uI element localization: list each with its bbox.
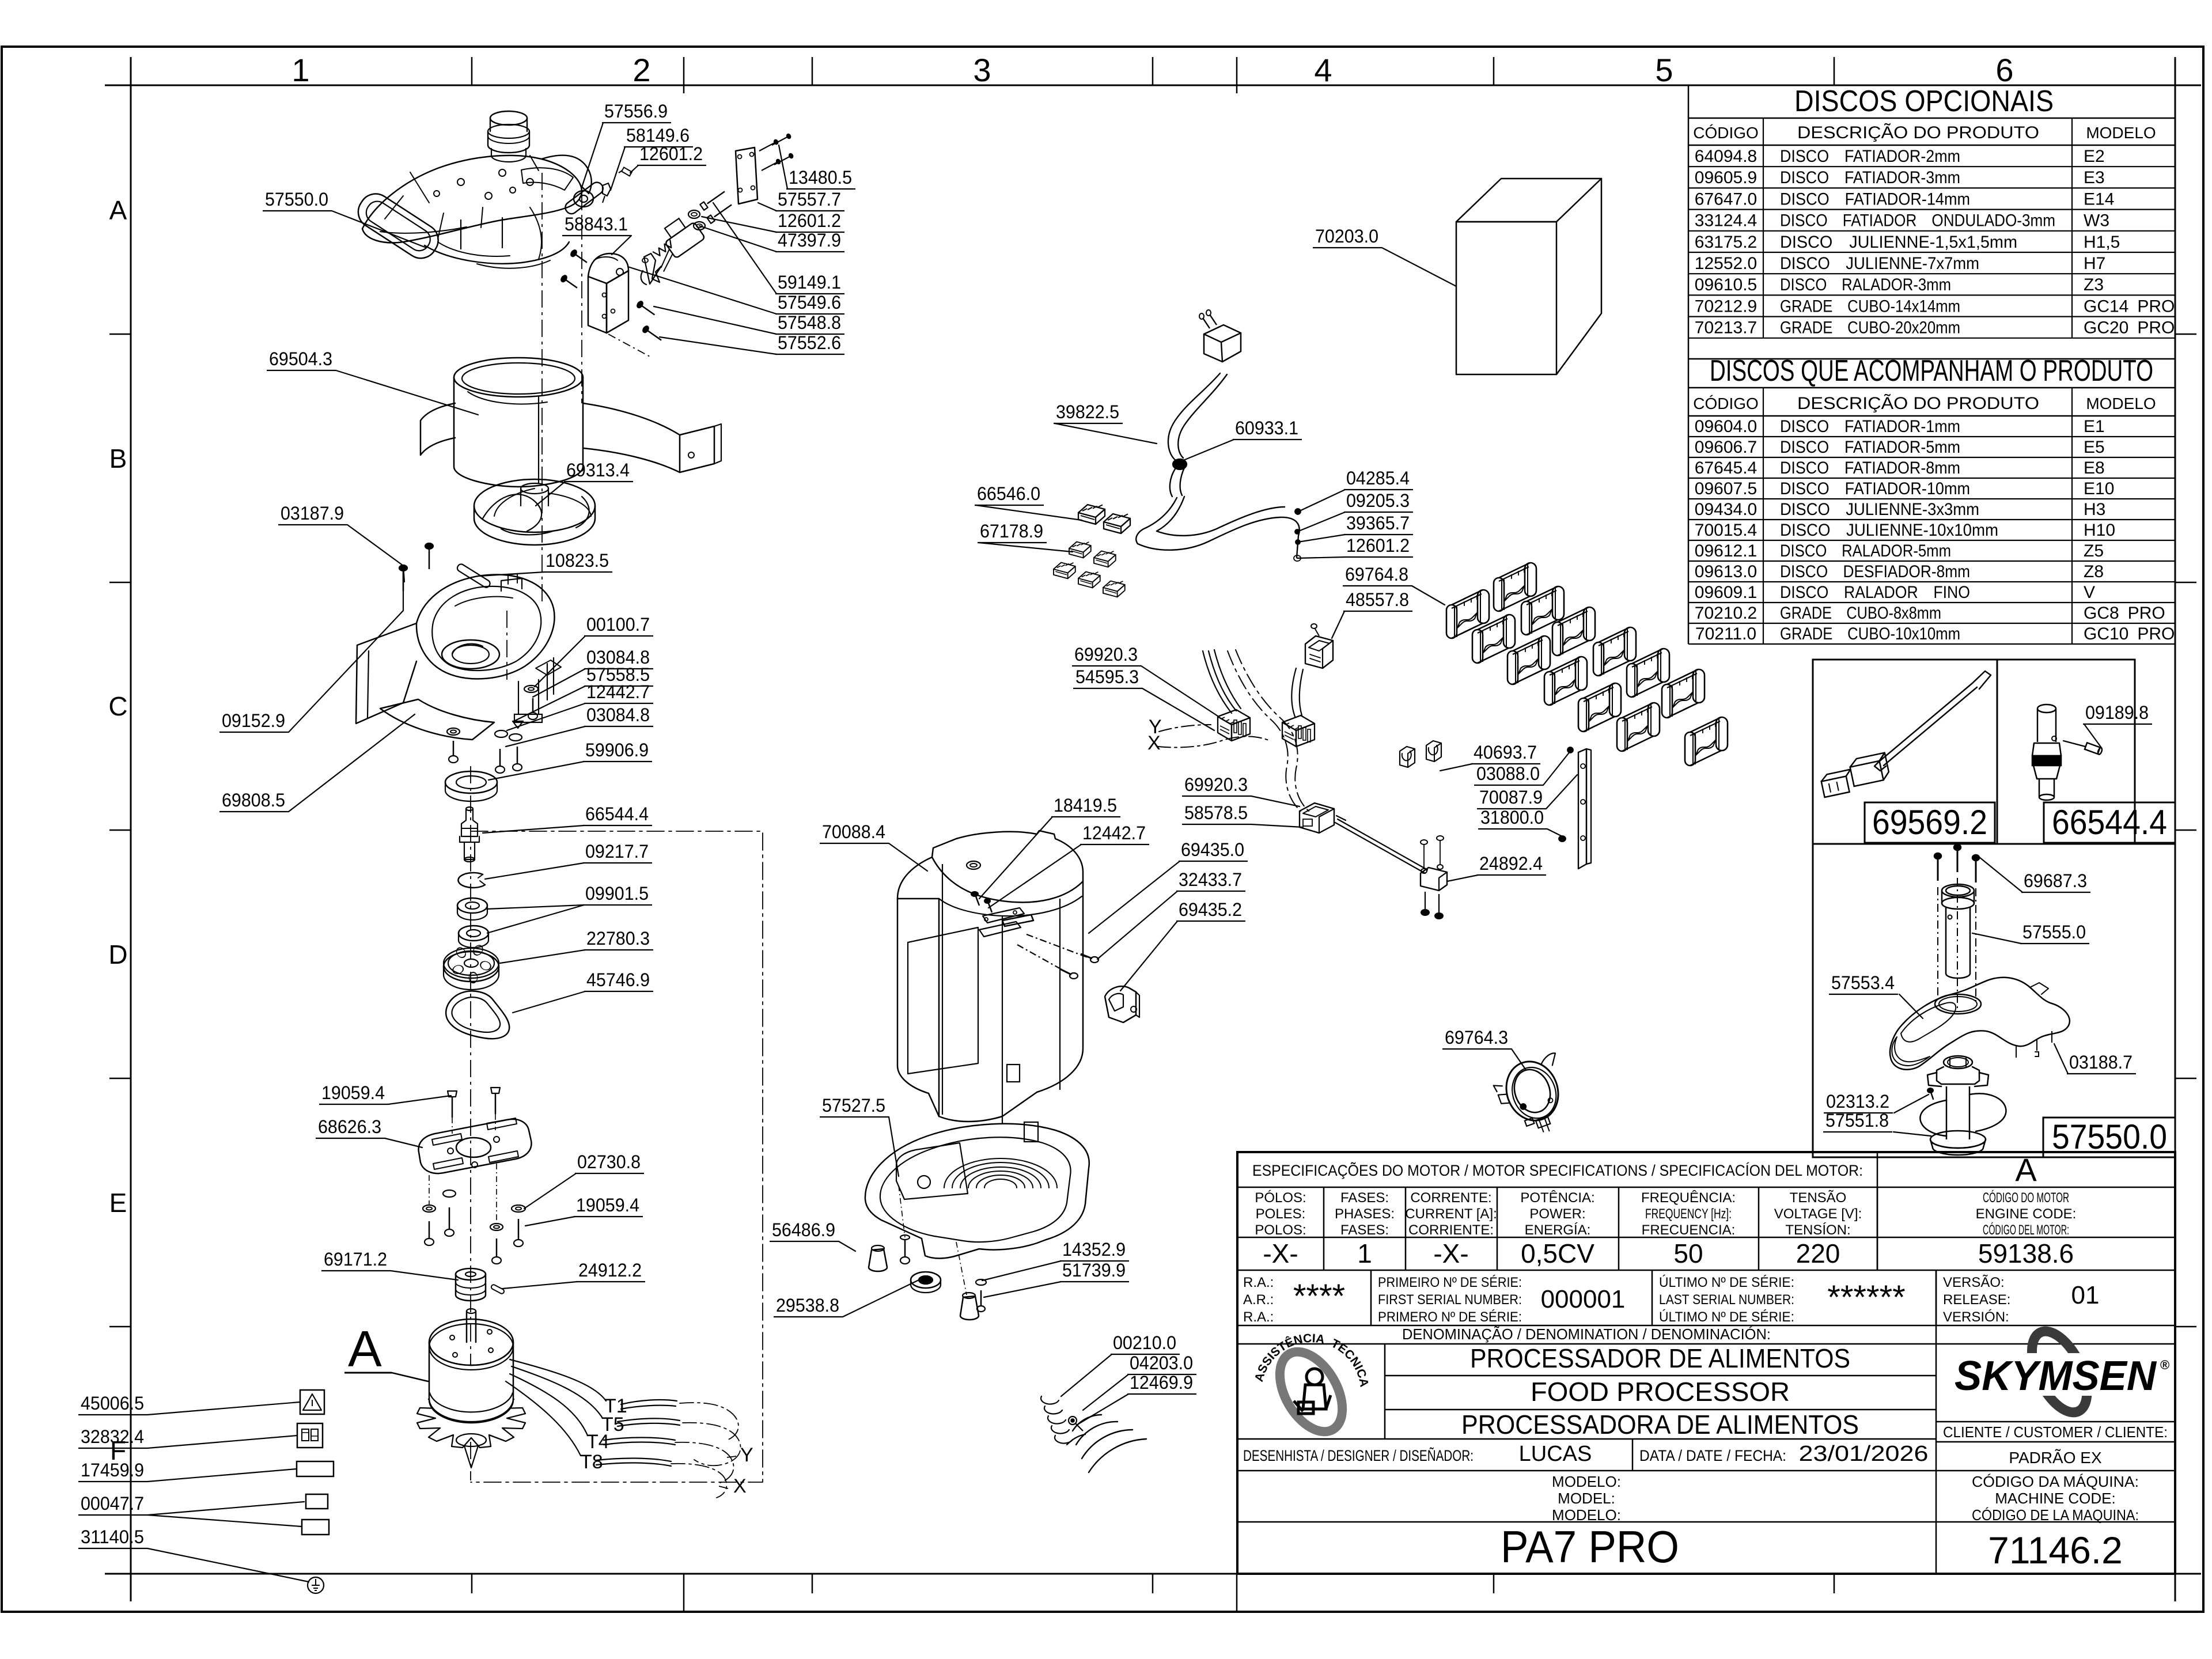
svg-text:66546.0: 66546.0 [977, 483, 1040, 504]
svg-text:DISCO FATIADOR-2mm: DISCO FATIADOR-2mm [1780, 147, 1960, 166]
svg-text:69569.2: 69569.2 [1872, 803, 1987, 842]
svg-text:09189.8: 09189.8 [2085, 702, 2149, 723]
svg-text:DISCO FATIADOR-1mm: DISCO FATIADOR-1mm [1780, 417, 1960, 436]
svg-text:45006.5: 45006.5 [81, 1393, 144, 1414]
main centerline [541, 173, 543, 605]
svg-text:6: 6 [1995, 52, 2013, 88]
svg-text:69920.3: 69920.3 [1184, 774, 1248, 795]
svg-text:24912.2: 24912.2 [578, 1260, 642, 1281]
detail: cleaning tool 69569.2 [1879, 683, 1972, 762]
svg-text:0,5CV: 0,5CV [1521, 1238, 1594, 1268]
svg-text:23/01/2026: 23/01/2026 [1799, 1442, 1929, 1466]
svg-text:DISCO FATIADOR-5mm: DISCO FATIADOR-5mm [1780, 438, 1960, 457]
svg-text:09217.7: 09217.7 [585, 841, 649, 862]
housing top screws & bracket 18419.5 [976, 896, 979, 906]
ring 59906.9 [445, 771, 497, 793]
svg-text:18419.5: 18419.5 [1054, 795, 1117, 816]
svg-text:09609.1: 09609.1 [1695, 583, 1757, 602]
pulley 22780.3 [444, 952, 499, 982]
switch 48557.8 [1305, 636, 1333, 668]
housing left recess [908, 927, 978, 1074]
svg-text:22780.3: 22780.3 [586, 928, 650, 949]
svg-text:50: 50 [1673, 1238, 1703, 1268]
svg-text:09605.9: 09605.9 [1695, 168, 1757, 187]
feed cylinder 69504.3 [454, 358, 583, 397]
bowl legs [518, 680, 539, 714]
pin 24912.2 [491, 1284, 505, 1294]
svg-text:19059.4: 19059.4 [321, 1082, 385, 1103]
svg-text:70211.0: 70211.0 [1695, 624, 1756, 643]
svg-text:MODELO: MODELO [2086, 124, 2156, 142]
lid dash leader [581, 193, 582, 403]
skymsen logo cell [1936, 1421, 2175, 1423]
svg-text:DISCO FATIADOR-10mm: DISCO FATIADOR-10mm [1780, 479, 1970, 498]
svg-text:4: 4 [1314, 52, 1332, 88]
svg-text:39365.7: 39365.7 [1346, 513, 1410, 533]
svg-text:70203.0: 70203.0 [1315, 226, 1378, 247]
svg-text:MODELO: MODELO [2086, 395, 2156, 412]
plate 68626.3 [419, 1119, 532, 1173]
pin 57556.9 [563, 180, 605, 217]
svg-text:ÚLTIMO Nº DE SÉRIE:: ÚLTIMO Nº DE SÉRIE: [1659, 1275, 1794, 1290]
svg-text:MODELO:: MODELO: [1552, 1473, 1621, 1490]
svg-text:04285.4: 04285.4 [1346, 468, 1410, 488]
svg-text:59906.9: 59906.9 [585, 740, 649, 760]
detail 57550.0: tube 57555.0 [1942, 884, 1974, 897]
svg-text:09607.5: 09607.5 [1695, 479, 1757, 498]
svg-text:57556.9: 57556.9 [604, 101, 668, 122]
base feet and screws [869, 1249, 887, 1271]
svg-text:70015.4: 70015.4 [1695, 521, 1757, 540]
detail 57550.0: cover arm 57553.4 [1890, 978, 2070, 1070]
svg-text:01: 01 [2071, 1281, 2100, 1309]
svg-text:1: 1 [1357, 1238, 1372, 1268]
svg-text:FOOD PROCESSOR: FOOD PROCESSOR [1531, 1377, 1790, 1407]
shaft 66544.4 [466, 807, 473, 810]
svg-text:B: B [109, 444, 127, 474]
svg-text:57548.8: 57548.8 [778, 312, 841, 333]
discs array 69764.8 [1494, 563, 1536, 611]
svg-text:-X-: -X- [1433, 1238, 1468, 1268]
hinge fork [644, 253, 661, 284]
svg-text:D: D [108, 940, 127, 969]
lid body plate [362, 156, 582, 243]
svg-text:Z3: Z3 [2084, 275, 2104, 294]
svg-text:FREQUENCY [Hz]:: FREQUENCY [Hz]: [1645, 1206, 1732, 1222]
svg-text:68626.3: 68626.3 [318, 1116, 381, 1137]
svg-text:DISCO JULIENNE-1,5x1,5mm: DISCO JULIENNE-1,5x1,5mm [1780, 233, 2017, 252]
svg-text:57555.0: 57555.0 [2022, 922, 2086, 942]
box 70203.0 [1456, 222, 1556, 374]
connector blocks 66546.0 [1078, 505, 1105, 524]
clamp block [1421, 868, 1447, 891]
svg-text:A: A [348, 1320, 382, 1377]
svg-text:57549.6: 57549.6 [778, 292, 841, 313]
fold marks bottom [683, 1574, 685, 1612]
svg-text:GC14 PRO: GC14 PRO [2084, 297, 2175, 316]
bar 70087.9 [1578, 749, 1586, 869]
denomination cells [1384, 1344, 1386, 1439]
svg-text:E14: E14 [2084, 190, 2114, 209]
svg-text:DISCO RALADOR-5mm: DISCO RALADOR-5mm [1780, 541, 1951, 560]
bowl spout left [356, 623, 416, 724]
svg-text:31800.0: 31800.0 [1480, 807, 1544, 828]
svg-text:70213.7: 70213.7 [1695, 319, 1757, 338]
housing tab [967, 861, 980, 869]
svg-text:DISCO FATIADOR-8mm: DISCO FATIADOR-8mm [1780, 459, 1960, 478]
svg-text:ENGINE CODE:: ENGINE CODE: [1976, 1206, 2077, 1222]
lid assembly 57550.0: pusher cap [490, 111, 527, 125]
svg-text:67645.4: 67645.4 [1695, 459, 1757, 478]
svg-text:FASES:: FASES: [1340, 1190, 1389, 1206]
svg-text:57557.7: 57557.7 [778, 189, 841, 210]
border corner crossing ticks [105, 85, 131, 86]
svg-text:E8: E8 [2084, 459, 2105, 478]
springs 00210.0/04203.0/12469.9 [1041, 1396, 1059, 1404]
svg-text:FREQUÊNCIA:: FREQUÊNCIA: [1641, 1190, 1736, 1206]
impeller 69313.4 [521, 483, 548, 494]
title block [1237, 1152, 2175, 1574]
svg-text:12442.7: 12442.7 [586, 681, 650, 702]
column zone ticks bottom [471, 1574, 473, 1593]
svg-text:ENERGÍA:: ENERGÍA: [1525, 1222, 1591, 1238]
rod 24892.4 [1335, 823, 1425, 873]
safety icon 45006.5 [300, 1390, 324, 1414]
svg-text:POTÊNCIA:: POTÊNCIA: [1520, 1190, 1594, 1206]
svg-text:PROCESSADORA DE ALIMENTOS: PROCESSADORA DE ALIMENTOS [1461, 1410, 1859, 1440]
svg-text:VERSÃO:: VERSÃO: [1943, 1275, 2005, 1290]
svg-text:58578.5: 58578.5 [1184, 802, 1248, 823]
table DISCOS OPCIONAIS [1688, 85, 1690, 644]
svg-text:SKYMSEN: SKYMSEN [1955, 1353, 2157, 1399]
designer row [1632, 1439, 1634, 1471]
svg-text:RELEASE:: RELEASE: [1943, 1292, 2010, 1308]
svg-text:MACHINE CODE:: MACHINE CODE: [1995, 1490, 2115, 1507]
plate screws 13480.5 [758, 139, 779, 153]
table DISCOS QUE ACOMPANHAM O PRODUTO [1688, 387, 2175, 389]
svg-text:GC20 PRO: GC20 PRO [2084, 319, 2175, 338]
svg-text:DISCO DESFIADOR-8mm: DISCO DESFIADOR-8mm [1780, 562, 1970, 581]
svg-text:03187.9: 03187.9 [281, 503, 344, 524]
row zone ticks right [2175, 334, 2196, 335]
svg-text:®: ® [2160, 1358, 2169, 1372]
detail: pin sensor 66544.4 [2037, 704, 2056, 713]
svg-text:H10: H10 [2084, 521, 2115, 540]
svg-text:DISCO FATIADOR-3mm: DISCO FATIADOR-3mm [1780, 168, 1960, 187]
svg-text:ÚLTIMO Nº DE SÉRIE:: ÚLTIMO Nº DE SÉRIE: [1659, 1309, 1794, 1325]
svg-text:00100.7: 00100.7 [586, 614, 650, 635]
svg-text:PRIMEIRO Nº DE SÉRIE:: PRIMEIRO Nº DE SÉRIE: [1378, 1275, 1522, 1290]
fold marks top [683, 57, 685, 93]
svg-text:Z5: Z5 [2084, 541, 2104, 560]
svg-text:63175.2: 63175.2 [1695, 233, 1757, 252]
svg-text:LAST SERIAL NUMBER:: LAST SERIAL NUMBER: [1659, 1292, 1794, 1308]
svg-text:H7: H7 [2084, 254, 2105, 273]
svg-text:DATA / DATE / FECHA:: DATA / DATE / FECHA: [1639, 1447, 1786, 1464]
svg-text:69435.2: 69435.2 [1179, 899, 1242, 920]
title block verticals [1877, 1152, 1878, 1270]
svg-text:PA7 PRO: PA7 PRO [1501, 1521, 1679, 1572]
svg-text:17459.9: 17459.9 [81, 1460, 144, 1480]
svg-text:E5: E5 [2084, 438, 2105, 457]
svg-text:48557.8: 48557.8 [1346, 589, 1409, 610]
pin 09189.8 [2063, 741, 2085, 747]
svg-text:******: ****** [1827, 1279, 1905, 1316]
svg-text:CÓDIGO DE LA MAQUINA:: CÓDIGO DE LA MAQUINA: [1972, 1506, 2139, 1524]
svg-text:12601.2: 12601.2 [1346, 535, 1410, 556]
svg-text:****: **** [1293, 1278, 1345, 1315]
svg-text:H1,5: H1,5 [2084, 233, 2120, 252]
svg-text:FIRST SERIAL NUMBER:: FIRST SERIAL NUMBER: [1378, 1292, 1522, 1308]
svg-text:29538.8: 29538.8 [776, 1295, 839, 1316]
connector blocks 67178.9 [1069, 542, 1091, 558]
svg-text:T8: T8 [580, 1451, 603, 1473]
latch block 58843.1 [588, 276, 607, 333]
mount arcs 04203.0 [1073, 1415, 1101, 1431]
svg-text:57553.4: 57553.4 [1831, 972, 1895, 993]
motor fan (behind body) [417, 1389, 525, 1448]
svg-text:Y: Y [740, 1444, 753, 1466]
svg-text:GRADE CUBO-10x10mm: GRADE CUBO-10x10mm [1780, 624, 1960, 643]
svg-text:2: 2 [632, 52, 650, 88]
svg-text:00210.0: 00210.0 [1113, 1332, 1176, 1353]
motor wires [510, 1359, 606, 1401]
screws 03187.9 [403, 570, 404, 591]
svg-text:33124.4: 33124.4 [1695, 211, 1757, 230]
svg-text:ESPECIFICAÇÕES DO MOTOR / MOTO: ESPECIFICAÇÕES DO MOTOR / MOTOR SPECIFIC… [1252, 1161, 1863, 1179]
svg-text:DISCO RALADOR-3mm: DISCO RALADOR-3mm [1780, 275, 1951, 294]
svg-text:57552.6: 57552.6 [778, 332, 841, 353]
svg-text:57550.0: 57550.0 [2052, 1118, 2167, 1156]
detail box frames [1813, 660, 2135, 844]
svg-text:13480.5: 13480.5 [789, 167, 852, 188]
base 57527.5 [865, 1124, 1089, 1259]
svg-text:09434.0: 09434.0 [1695, 500, 1757, 519]
svg-text:58843.1: 58843.1 [565, 214, 628, 234]
svg-text:-X-: -X- [1263, 1238, 1298, 1268]
svg-text:VOLTAGE [V]:: VOLTAGE [V]: [1774, 1206, 1862, 1222]
svg-text:03084.8: 03084.8 [586, 704, 650, 725]
svg-text:X: X [733, 1475, 747, 1497]
switch cap 69435.2 [1105, 986, 1136, 1022]
latch screws [570, 249, 589, 265]
svg-text:220: 220 [1796, 1238, 1840, 1268]
svg-text:R.A.:: R.A.: [1243, 1275, 1274, 1290]
svg-text:69808.5: 69808.5 [222, 790, 285, 810]
svg-text:POWER:: POWER: [1529, 1206, 1585, 1222]
lid handle ring [352, 188, 444, 264]
svg-text:09606.7: 09606.7 [1695, 438, 1757, 457]
svg-text:10823.5: 10823.5 [546, 550, 609, 571]
clip 58149.6 [603, 183, 611, 196]
safety icon 32832.4 [297, 1423, 323, 1448]
svg-text:09901.5: 09901.5 [585, 883, 649, 904]
svg-text:69764.8: 69764.8 [1345, 564, 1408, 585]
detail 57550.0: screws 69687.3 [1937, 858, 1939, 881]
base left recess [896, 1143, 968, 1199]
pin 10823.5 [456, 563, 491, 589]
svg-text:A.R.:: A.R.: [1243, 1292, 1274, 1308]
svg-text:CÓDIGO DA MÁQUINA:: CÓDIGO DA MÁQUINA: [1972, 1473, 2139, 1490]
svg-text:GC10 PRO: GC10 PRO [2084, 624, 2175, 643]
terminal blocks 69920.3/54595.3 [1218, 710, 1250, 741]
svg-text:GRADE CUBO-20x20mm: GRADE CUBO-20x20mm [1780, 319, 1960, 338]
svg-text:DISCO FATIADOR-14mm: DISCO FATIADOR-14mm [1780, 190, 1970, 209]
svg-text:CLIENTE / CUSTOMER / CLIENTE:: CLIENTE / CUSTOMER / CLIENTE: [1943, 1423, 2168, 1441]
svg-text:DESENHISTA / DESIGNER / DISEÑA: DESENHISTA / DESIGNER / DISEÑADOR: [1243, 1446, 1474, 1464]
svg-text:DESCRIÇÃO DO PRODUTO: DESCRIÇÃO DO PRODUTO [1797, 123, 2039, 142]
svg-text:02313.2: 02313.2 [1826, 1091, 1889, 1112]
svg-text:E: E [109, 1188, 127, 1218]
svg-text:19059.4: 19059.4 [576, 1195, 639, 1215]
svg-text:T4: T4 [586, 1431, 609, 1453]
svg-text:CÓDIGO: CÓDIGO [1693, 124, 1759, 142]
svg-text:PROCESSADOR DE ALIMENTOS: PROCESSADOR DE ALIMENTOS [1470, 1343, 1850, 1373]
housing small hole [1007, 1065, 1020, 1082]
capacitor clamp 69764.3 [1490, 1051, 1580, 1144]
svg-text:DISCOS OPCIONAIS: DISCOS OPCIONAIS [1794, 85, 2054, 118]
svg-text:H3: H3 [2084, 500, 2105, 519]
svg-text:GC8 PRO: GC8 PRO [2084, 604, 2165, 623]
bearings 09901.5 [457, 898, 487, 913]
svg-text:CORRIENTE:: CORRIENTE: [1408, 1222, 1494, 1238]
svg-text:V: V [2084, 583, 2095, 602]
svg-text:CÓDIGO DEL MOTOR:: CÓDIGO DEL MOTOR: [1983, 1222, 2069, 1238]
spacer 69171.2 [456, 1268, 486, 1280]
svg-text:57550.0: 57550.0 [265, 189, 328, 210]
svg-text:LUCAS: LUCAS [1519, 1442, 1592, 1466]
housing 70088.4 [897, 831, 1083, 1122]
svg-text:67178.9: 67178.9 [980, 521, 1043, 541]
svg-text:69920.3: 69920.3 [1074, 644, 1138, 665]
svg-text:47397.9: 47397.9 [778, 230, 841, 251]
svg-text:GRADE CUBO-14x14mm: GRADE CUBO-14x14mm [1780, 297, 1960, 316]
svg-text:C: C [108, 691, 127, 721]
circlip 09217.7 [458, 873, 485, 888]
svg-text:CÓDIGO DO MOTOR: CÓDIGO DO MOTOR [1983, 1190, 2069, 1206]
svg-text:70087.9: 70087.9 [1479, 787, 1543, 808]
svg-text:39822.5: 39822.5 [1056, 402, 1119, 422]
svg-text:DISCO JULIENNE-3x3mm: DISCO JULIENNE-3x3mm [1780, 500, 1979, 519]
motor body [429, 1342, 513, 1423]
svg-text:69504.3: 69504.3 [269, 349, 332, 369]
svg-text:09152.9: 09152.9 [222, 710, 285, 731]
column zone ticks top [471, 57, 473, 85]
housing long screws [1027, 934, 1088, 957]
svg-text:70088.4: 70088.4 [822, 821, 885, 842]
svg-text:R.A.:: R.A.: [1243, 1309, 1274, 1325]
row zone ticks left [109, 334, 131, 335]
svg-text:DISCOS QUE ACOMPANHAM O PRODUT: DISCOS QUE ACOMPANHAM O PRODUTO [1710, 354, 2153, 388]
rubber ring 29538.8 [911, 1272, 941, 1288]
svg-text:69435.0: 69435.0 [1181, 839, 1244, 860]
svg-text:14352.9: 14352.9 [1062, 1239, 1126, 1260]
svg-text:DESCRIÇÃO DO PRODUTO: DESCRIÇÃO DO PRODUTO [1797, 393, 2039, 413]
svg-text:03188.7: 03188.7 [2069, 1052, 2133, 1073]
svg-text:64094.8: 64094.8 [1695, 147, 1757, 166]
svg-text:000001: 000001 [1541, 1285, 1626, 1313]
svg-text:00047.7: 00047.7 [81, 1493, 144, 1514]
svg-text:DISCO FATIADOR ONDULADO-3mm: DISCO FATIADOR ONDULADO-3mm [1780, 211, 2055, 230]
ground symbol 31140.5 [308, 1577, 324, 1593]
svg-text:X: X [1147, 732, 1161, 754]
svg-text:DISCO JULIENNE-7x7mm: DISCO JULIENNE-7x7mm [1780, 254, 1979, 273]
motor spec columns [1323, 1187, 1325, 1270]
svg-text:24892.4: 24892.4 [1479, 853, 1543, 874]
svg-text:02730.8: 02730.8 [577, 1152, 641, 1172]
power cord 39822.5 [1204, 325, 1241, 362]
svg-text:E10: E10 [2084, 479, 2114, 498]
svg-text:E1: E1 [2084, 417, 2105, 436]
svg-text:58149.6: 58149.6 [626, 125, 690, 146]
svg-text:51739.9: 51739.9 [1062, 1260, 1126, 1281]
svg-text:69764.3: 69764.3 [1445, 1027, 1508, 1048]
svg-text:09612.1: 09612.1 [1695, 541, 1757, 560]
tags 00047.7 [306, 1494, 328, 1509]
svg-text:E3: E3 [2084, 168, 2105, 187]
svg-text:12601.2: 12601.2 [778, 210, 841, 231]
svg-text:A: A [109, 195, 127, 225]
detail 57550.0: scraper base 57551.8 [1944, 1056, 1972, 1069]
serial row [1370, 1270, 1372, 1325]
svg-text:66544.4: 66544.4 [2052, 803, 2167, 842]
svg-text:PHASES:: PHASES: [1335, 1206, 1395, 1222]
svg-text:CURRENT [A]:: CURRENT [A]: [1405, 1206, 1497, 1222]
svg-text:12552.0: 12552.0 [1695, 254, 1757, 273]
detail 57550.0: screw 02313.2 [1931, 1092, 1933, 1099]
svg-text:DISCO RALADOR FINO: DISCO RALADOR FINO [1780, 583, 1970, 602]
svg-text:PÓLOS:: PÓLOS: [1255, 1190, 1306, 1206]
svg-text:69313.4: 69313.4 [566, 460, 630, 480]
svg-text:POLES:: POLES: [1256, 1206, 1306, 1222]
svg-text:TENSÃO: TENSÃO [1790, 1190, 1847, 1206]
plate screws above [448, 1091, 457, 1097]
wire phantom curves to X/Y [680, 1403, 738, 1440]
svg-text:67647.0: 67647.0 [1695, 190, 1757, 209]
svg-text:Z8: Z8 [2084, 562, 2104, 581]
detail A dash-dot boundary [471, 831, 763, 1482]
svg-text:56486.9: 56486.9 [772, 1219, 835, 1240]
svg-text:54595.3: 54595.3 [1075, 666, 1139, 687]
svg-text:03088.0: 03088.0 [1476, 763, 1540, 784]
svg-text:12442.7: 12442.7 [1082, 823, 1146, 843]
svg-text:70212.9: 70212.9 [1695, 297, 1757, 316]
base grill [984, 1179, 1017, 1188]
svg-text:12601.2: 12601.2 [639, 143, 703, 164]
svg-text:60933.1: 60933.1 [1235, 418, 1298, 438]
svg-text:57551.8: 57551.8 [1825, 1110, 1889, 1131]
svg-text:DENOMINAÇÃO / DENOMINATION / D: DENOMINAÇÃO / DENOMINATION / DENOMINACIÓ… [1402, 1325, 1771, 1343]
svg-text:09205.3: 09205.3 [1346, 490, 1410, 511]
micro switch 58578.5 [1300, 803, 1334, 833]
tag 17459.9 [297, 1461, 334, 1476]
svg-text:CORRENTE:: CORRENTE: [1410, 1190, 1491, 1206]
wires into terminal blocks [1203, 651, 1232, 713]
svg-text:FRECUENCIA:: FRECUENCIA: [1642, 1222, 1736, 1238]
svg-text:66544.4: 66544.4 [585, 804, 649, 824]
svg-text:69687.3: 69687.3 [2024, 870, 2087, 891]
belt 45746.9 [446, 991, 509, 1039]
svg-text:DISCO JULIENNE-10x10mm: DISCO JULIENNE-10x10mm [1780, 521, 1998, 540]
svg-text:3: 3 [973, 52, 991, 88]
svg-text:POLOS:: POLOS: [1255, 1222, 1306, 1238]
plate hardware below [423, 1205, 435, 1212]
screw 12601.2 tiny [622, 168, 632, 176]
svg-text:70210.2: 70210.2 [1695, 604, 1757, 623]
svg-text:PRIMERO Nº DE SÉRIE:: PRIMERO Nº DE SÉRIE: [1378, 1309, 1522, 1325]
svg-text:69171.2: 69171.2 [324, 1249, 387, 1270]
base top tab [1024, 1122, 1038, 1142]
